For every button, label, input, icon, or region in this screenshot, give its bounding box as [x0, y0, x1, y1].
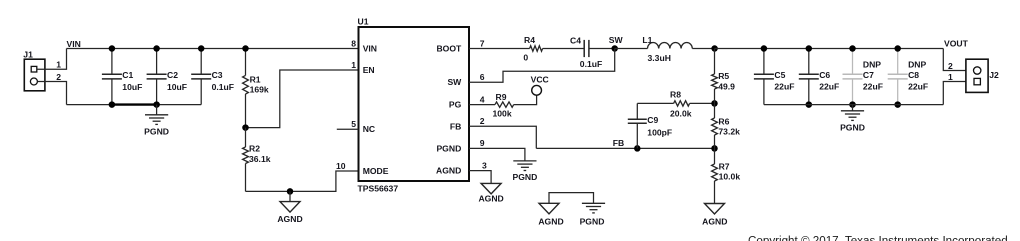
junction SW: [611, 45, 618, 52]
svg-text:7: 7: [480, 38, 485, 48]
svg-text:6: 6: [480, 72, 485, 82]
junction VIN/C1: [109, 45, 116, 52]
svg-text:8: 8: [351, 38, 356, 48]
svg-text:PGND: PGND: [144, 127, 169, 137]
ground AGND (floating): [538, 203, 563, 226]
svg-text:AGND: AGND: [702, 217, 727, 227]
svg-text:J2: J2: [989, 70, 999, 80]
wire AGND-PGND bridge: [549, 193, 594, 204]
wire C1 to C2 bottom (thick): [112, 103, 157, 105]
resistor R4: [523, 35, 542, 63]
svg-text:C3: C3: [212, 70, 223, 80]
svg-text:0.1uF: 0.1uF: [580, 59, 602, 69]
wire C9 to R8: [637, 102, 673, 104]
svg-text:3.3uH: 3.3uH: [648, 53, 671, 63]
junction C9/FB: [634, 145, 641, 152]
wire R8 to R5/R6 junction: [690, 102, 715, 104]
capacitor C1: [102, 49, 142, 105]
svg-text:22uF: 22uF: [774, 82, 794, 92]
svg-text:AGND: AGND: [478, 194, 503, 204]
svg-text:SW: SW: [609, 35, 624, 45]
svg-text:C8: C8: [908, 70, 919, 80]
svg-text:EN: EN: [363, 65, 375, 75]
svg-text:9: 9: [480, 138, 485, 148]
svg-text:J1: J1: [23, 49, 33, 59]
ground PGND (input): [144, 105, 169, 137]
svg-text:R8: R8: [670, 90, 681, 100]
wire output ground rail: [764, 104, 943, 106]
wire J1 pin1 to VIN rail: [37, 49, 67, 70]
junction C6/ground rail: [806, 101, 813, 108]
svg-text:2: 2: [56, 72, 61, 82]
svg-text:MODE: MODE: [363, 166, 389, 176]
wire input ground rail: [67, 104, 202, 106]
svg-text:2: 2: [480, 116, 485, 126]
svg-text:PGND: PGND: [436, 143, 461, 153]
svg-text:10.0k: 10.0k: [719, 172, 741, 182]
svg-text:0: 0: [523, 52, 528, 62]
wire FB net: [536, 147, 714, 149]
capacitor C3: [191, 49, 234, 105]
svg-text:L1: L1: [642, 35, 652, 45]
junction VIN/R1: [242, 45, 249, 52]
svg-text:SW: SW: [447, 77, 462, 87]
wire R9 to VCC: [514, 95, 537, 104]
svg-text:10uF: 10uF: [122, 82, 142, 92]
svg-text:10uF: 10uF: [167, 82, 187, 92]
svg-text:U1: U1: [358, 17, 369, 27]
svg-text:49.9: 49.9: [718, 81, 735, 91]
wire R2 bottom to MODE pin: [246, 171, 359, 191]
svg-text:VIN: VIN: [363, 44, 377, 54]
svg-text:AGND: AGND: [538, 216, 563, 226]
svg-text:R6: R6: [718, 116, 729, 126]
svg-text:C7: C7: [863, 70, 874, 80]
resistor R2: [243, 128, 271, 192]
junction VOUT/C5: [761, 45, 768, 52]
svg-text:Copyright © 2017, Texas Instru: Copyright © 2017, Texas Instruments Inco…: [748, 235, 1008, 241]
svg-text:DNP: DNP: [908, 60, 926, 70]
connector J1: [23, 49, 45, 91]
wire R1 bottom to EN pin: [246, 70, 359, 128]
svg-text:22uF: 22uF: [908, 82, 928, 92]
svg-text:5: 5: [351, 119, 356, 129]
svg-text:4: 4: [480, 94, 485, 104]
capacitor C5: [754, 49, 795, 105]
svg-text:22uF: 22uF: [863, 82, 883, 92]
svg-text:PG: PG: [449, 100, 462, 110]
svg-text:PGND: PGND: [512, 172, 537, 182]
junction C2/ground rail: [153, 101, 160, 108]
capacitor C9: [628, 103, 672, 148]
junction VIN/C2: [153, 45, 160, 52]
svg-text:36.1k: 36.1k: [249, 154, 271, 164]
junction R5/R6/R8: [711, 100, 718, 107]
svg-text:C1: C1: [122, 70, 133, 80]
wire PG to R9: [469, 104, 495, 106]
ground AGND (below R7): [702, 204, 727, 227]
capacitor C2: [147, 49, 187, 105]
ground AGND (pin 3): [478, 183, 503, 203]
resistor R6: [712, 103, 741, 148]
wire FB pin to FB net: [469, 126, 536, 148]
svg-text:VCC: VCC: [531, 74, 549, 84]
svg-text:BOOT: BOOT: [436, 44, 462, 54]
junction C8/ground rail: [894, 101, 901, 108]
wire SW pin to SW node: [469, 49, 615, 83]
svg-text:R4: R4: [524, 35, 535, 45]
svg-text:3: 3: [482, 160, 487, 170]
wire AGND pin 3: [469, 171, 491, 184]
svg-text:DNP: DNP: [863, 60, 881, 70]
junction VOUT/C6: [806, 45, 813, 52]
junction AGND tap: [287, 188, 294, 195]
IC U1 TPS56637 buck converter: [358, 17, 470, 194]
power VCC: [531, 74, 549, 95]
svg-text:100k: 100k: [493, 108, 512, 118]
resistor R5: [712, 49, 736, 104]
svg-text:VOUT: VOUT: [944, 39, 969, 49]
capacitor C4: [570, 36, 602, 70]
junction VOUT/C7: [849, 45, 856, 52]
connector J2: [966, 59, 999, 92]
svg-text:169k: 169k: [250, 84, 269, 94]
resistor R7: [712, 148, 741, 203]
capacitor C8 (DNP): [888, 49, 928, 105]
svg-text:C5: C5: [774, 70, 785, 80]
wire J1 pin2 to input ground rail: [37, 82, 66, 105]
wire J2 pin1 to output ground rail: [943, 82, 973, 105]
junction C1/ground rail: [109, 101, 116, 108]
svg-text:100pF: 100pF: [647, 127, 672, 137]
junction VIN/C3: [198, 45, 205, 52]
svg-text:R2: R2: [249, 144, 260, 154]
wire PGND pin 9: [469, 148, 525, 161]
svg-text:AGND: AGND: [436, 166, 461, 176]
resistor R8: [670, 90, 692, 119]
svg-text:R1: R1: [250, 74, 261, 84]
svg-text:R9: R9: [496, 92, 507, 102]
svg-text:VIN: VIN: [67, 39, 81, 49]
svg-text:TPS56637: TPS56637: [358, 184, 399, 194]
resistor R1: [243, 49, 269, 128]
svg-text:FB: FB: [613, 138, 624, 148]
svg-text:1: 1: [948, 72, 953, 82]
junction L1 output: [711, 45, 718, 52]
wire VOUT to J2 pin2: [943, 49, 973, 71]
junction VOUT/C8: [894, 45, 901, 52]
inductor L1: [615, 35, 715, 63]
wire NC stub: [337, 128, 359, 130]
svg-text:22uF: 22uF: [819, 82, 839, 92]
resistor R9: [493, 92, 514, 119]
svg-text:R5: R5: [718, 71, 729, 81]
svg-text:PGND: PGND: [580, 216, 605, 226]
capacitor C7 (DNP): [843, 49, 883, 105]
junction R6/R7 FB: [711, 145, 718, 152]
svg-text:20.0k: 20.0k: [670, 108, 692, 118]
ground PGND (output): [840, 105, 865, 133]
svg-text:C6: C6: [819, 70, 830, 80]
wire VIN rail: [67, 48, 359, 50]
wire BOOT to R4: [469, 48, 530, 50]
svg-text:0.1uF: 0.1uF: [212, 82, 234, 92]
svg-text:AGND: AGND: [277, 214, 302, 224]
ground PGND (floating): [580, 203, 606, 226]
svg-text:1: 1: [56, 60, 61, 70]
junction C7/ground rail: [849, 101, 856, 108]
junction R1/R2: [242, 124, 249, 131]
svg-text:C9: C9: [647, 115, 658, 125]
svg-text:2: 2: [948, 61, 953, 71]
svg-text:NC: NC: [363, 124, 375, 134]
svg-text:1: 1: [351, 60, 356, 70]
svg-text:FB: FB: [450, 121, 461, 131]
svg-text:C4: C4: [570, 36, 581, 46]
wire C4 to SW node: [589, 48, 615, 50]
ground AGND (below R2): [277, 191, 302, 223]
capacitor C6: [799, 49, 839, 105]
svg-text:R7: R7: [719, 162, 730, 172]
wire R4 to C4: [543, 48, 585, 50]
svg-text:73.2k: 73.2k: [718, 126, 740, 136]
svg-text:C2: C2: [167, 70, 178, 80]
wire VOUT rail: [715, 48, 944, 50]
svg-text:PGND: PGND: [840, 122, 865, 132]
ground PGND (pin 9): [512, 161, 537, 182]
svg-text:10: 10: [336, 161, 346, 171]
